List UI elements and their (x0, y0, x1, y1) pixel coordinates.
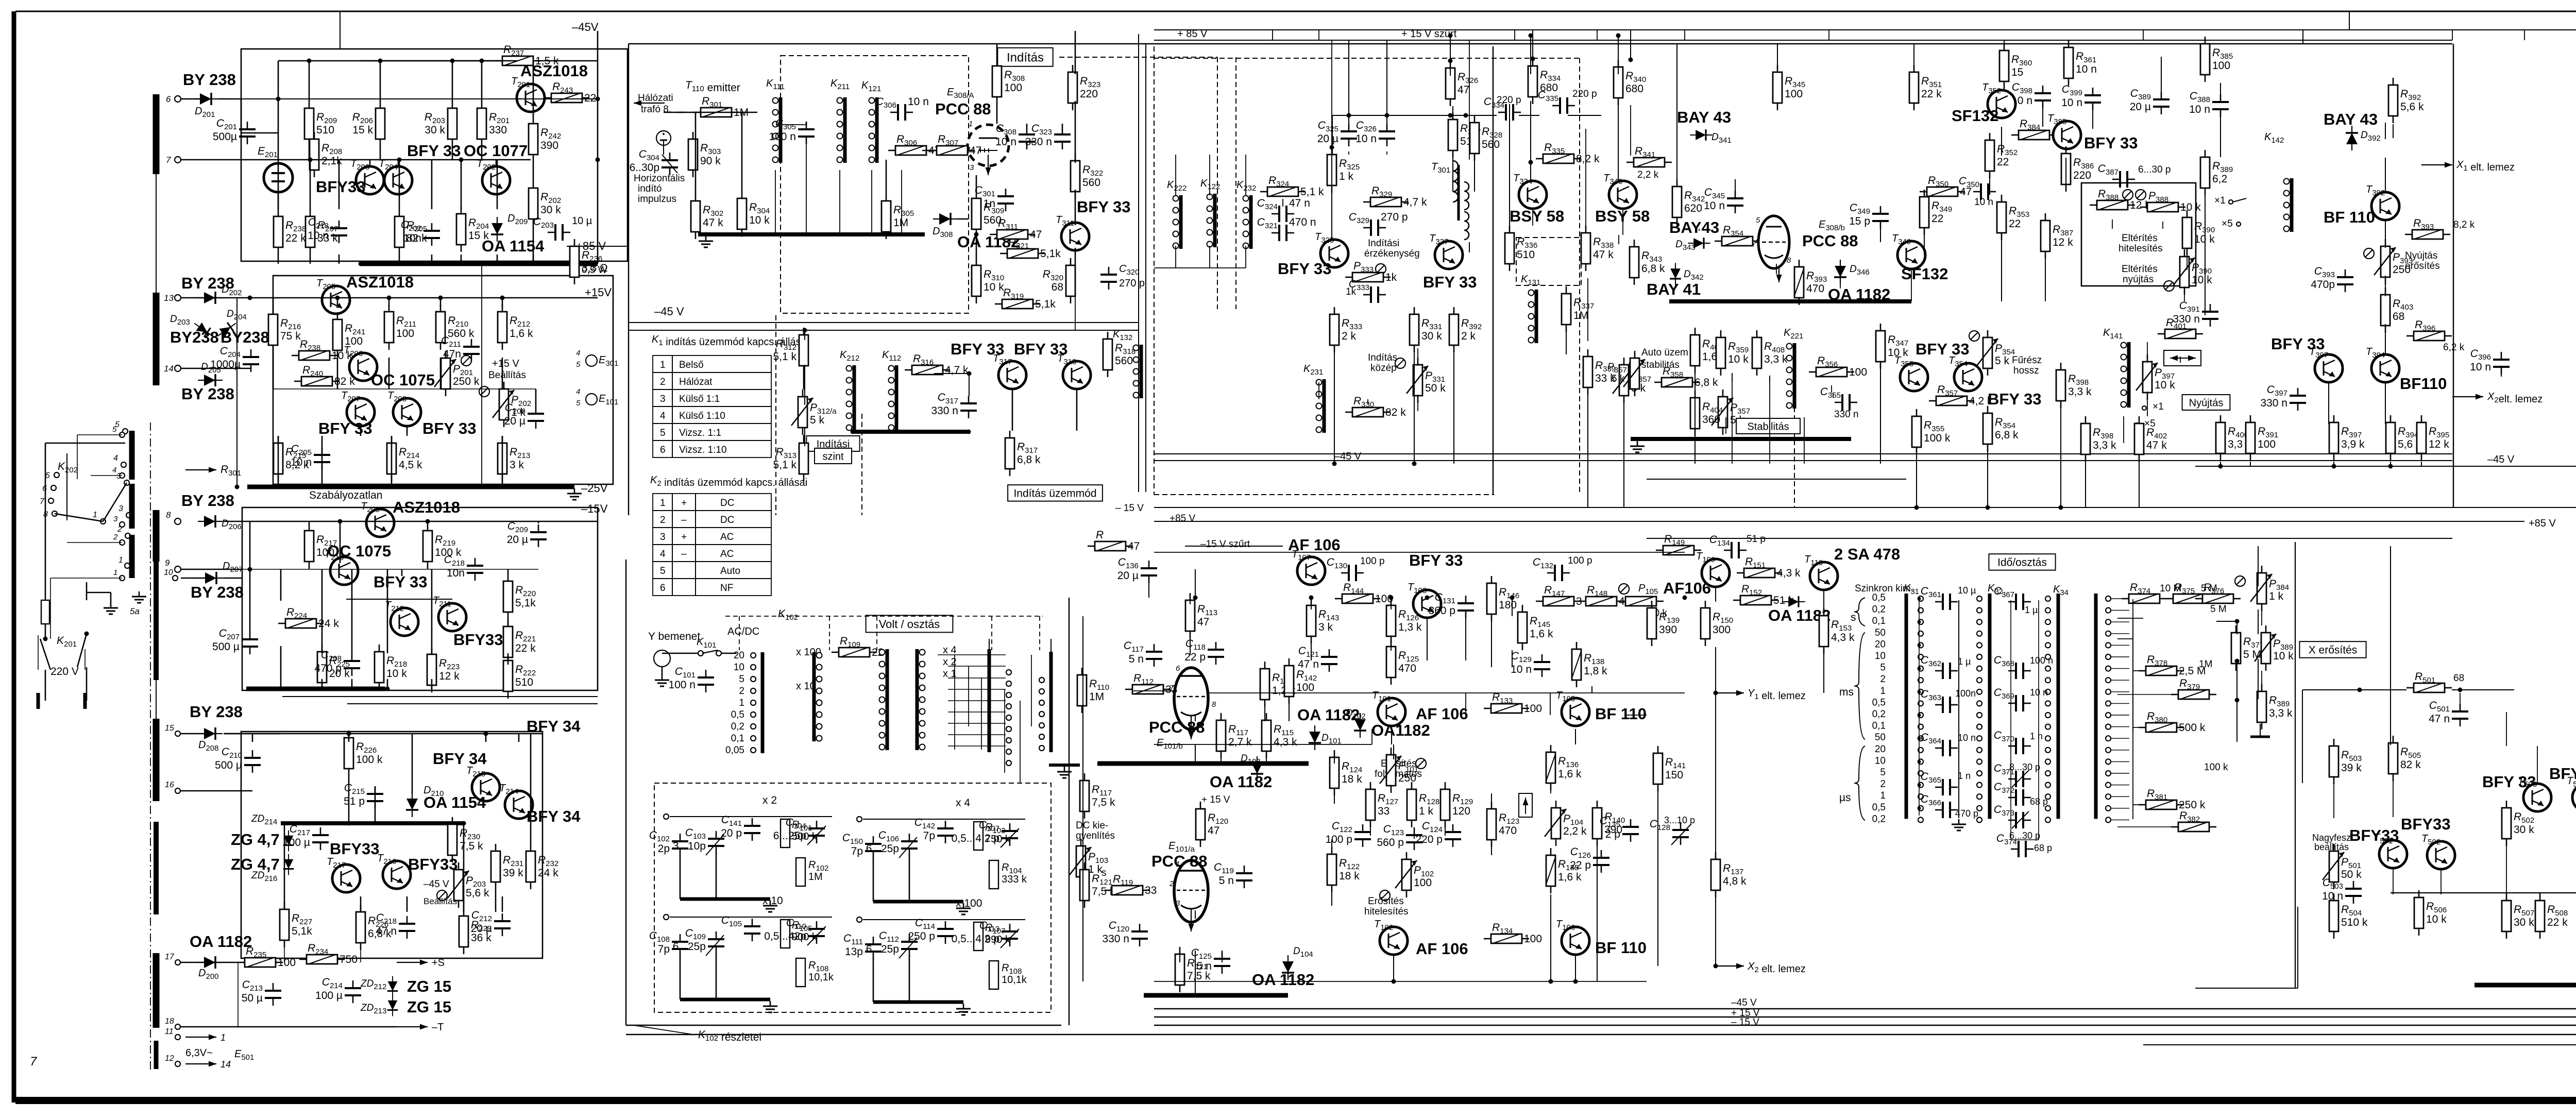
svg-text:47 n: 47 n (1289, 197, 1310, 209)
svg-text:47 k: 47 k (2146, 439, 2167, 451)
svg-text:1: 1 (118, 556, 123, 565)
svg-text:BAY 43: BAY 43 (1677, 108, 1731, 126)
svg-text:x 100: x 100 (956, 897, 982, 909)
svg-text:30 k: 30 k (540, 204, 561, 216)
svg-text:2 SA 478: 2 SA 478 (1834, 545, 1900, 563)
svg-text:BY 238: BY 238 (181, 385, 234, 403)
svg-text:12 k: 12 k (2053, 236, 2073, 248)
svg-text:hitelesítés: hitelesítés (2119, 243, 2163, 254)
svg-text:– 15 V: – 15 V (1115, 503, 1144, 514)
svg-text:22 k: 22 k (515, 642, 536, 654)
svg-text:5,6 k: 5,6 k (466, 887, 489, 899)
svg-text:trafó 8.: trafó 8. (641, 104, 671, 115)
svg-text:1M: 1M (893, 217, 908, 229)
svg-text:µs: µs (1839, 792, 1851, 804)
svg-text:5,1 k: 5,1 k (773, 459, 796, 471)
svg-text:22 p: 22 p (1184, 651, 1206, 663)
svg-text:+15V: +15V (585, 286, 612, 299)
svg-text:10 k: 10 k (984, 281, 1004, 293)
svg-text:47 k: 47 k (1593, 249, 1614, 261)
svg-text:10 n: 10 n (1974, 197, 1993, 208)
svg-text:2 p: 2 p (1605, 828, 1620, 840)
svg-text:10: 10 (1875, 755, 1886, 766)
svg-text:NF: NF (720, 583, 733, 594)
svg-text:közép: közép (1370, 363, 1397, 374)
svg-text:560: 560 (1115, 355, 1133, 367)
svg-text:10 k: 10 k (2180, 201, 2201, 213)
svg-text:Indítás: Indítás (1368, 352, 1397, 363)
svg-text:4,7 k: 4,7 k (1403, 196, 1427, 208)
svg-text:5: 5 (660, 428, 666, 438)
svg-text:15 k: 15 k (352, 124, 373, 136)
svg-text:szint: szint (822, 451, 844, 462)
svg-text:12 k: 12 k (2429, 438, 2449, 450)
svg-text:180: 180 (1499, 599, 1517, 611)
svg-text:220: 220 (2073, 169, 2091, 181)
svg-text:82 k: 82 k (1385, 406, 1406, 418)
svg-text:18 k: 18 k (1342, 773, 1362, 785)
svg-text:Y bemenet: Y bemenet (648, 631, 700, 642)
svg-text:Stabilitás: Stabilitás (1747, 421, 1789, 432)
svg-text:120: 120 (1452, 805, 1470, 817)
svg-text:BFY 33: BFY 33 (2271, 335, 2325, 353)
svg-text:3 k: 3 k (510, 459, 524, 471)
svg-text:47: 47 (1208, 825, 1219, 837)
svg-text:X erősítés: X erősítés (2309, 645, 2358, 656)
svg-text:18: 18 (165, 1017, 174, 1026)
svg-text:4: 4 (576, 349, 580, 358)
svg-text:ASZ1018: ASZ1018 (346, 273, 414, 291)
svg-text:250 k: 250 k (2179, 799, 2206, 811)
svg-text:–45 V: –45 V (1731, 997, 1757, 1008)
svg-text:BF 110: BF 110 (1595, 705, 1647, 723)
svg-text:10 µ: 10 µ (572, 215, 592, 227)
svg-text:5 M: 5 M (2210, 604, 2227, 615)
svg-text:AF 106: AF 106 (1416, 705, 1468, 723)
svg-text:OA 1182: OA 1182 (190, 932, 252, 951)
svg-text:R: R (1096, 529, 1104, 541)
svg-text:+: + (681, 498, 687, 508)
svg-text:–T: –T (432, 1022, 444, 1033)
svg-text:7,5 k: 7,5 k (1092, 796, 1115, 808)
svg-text:100 µ: 100 µ (315, 990, 343, 1002)
svg-text:5,1k: 5,1k (292, 925, 312, 937)
svg-text:5,1k: 5,1k (1040, 248, 1061, 260)
svg-text:100: 100 (396, 328, 414, 340)
svg-text:3 k: 3 k (1318, 621, 1333, 633)
svg-text:BFY 34: BFY 34 (527, 717, 581, 735)
svg-text:1 k: 1 k (2269, 590, 2284, 602)
svg-text:+S: +S (432, 957, 445, 969)
svg-text:3: 3 (660, 394, 666, 404)
svg-text:100: 100 (278, 957, 296, 969)
svg-text:K2 indítás üzemmód kapcs. állá: K2 indítás üzemmód kapcs. állásai (650, 474, 807, 488)
svg-text:20 µ: 20 µ (507, 534, 528, 546)
svg-text:22: 22 (1997, 156, 2009, 168)
svg-text:390: 390 (540, 140, 558, 151)
svg-text:330 n: 330 n (1102, 933, 1129, 945)
svg-text:100: 100 (1296, 682, 1314, 693)
svg-text:2: 2 (1169, 879, 1174, 888)
svg-text:100 p: 100 p (1568, 555, 1592, 566)
svg-text:SF132: SF132 (1952, 107, 1998, 125)
svg-text:OC 1077: OC 1077 (464, 142, 528, 160)
svg-text:330 n: 330 n (931, 405, 958, 417)
svg-text:6...25p: 6...25p (866, 843, 899, 855)
svg-text:10 k: 10 k (2426, 913, 2447, 925)
svg-text:Vizsz. 1:1: Vizsz. 1:1 (679, 428, 721, 438)
svg-text:220 p: 220 p (1572, 89, 1597, 99)
svg-text:47: 47 (1030, 229, 1042, 241)
svg-text:500 k: 500 k (2179, 722, 2206, 734)
svg-text:6...25p: 6...25p (673, 941, 706, 953)
svg-text:22 k: 22 k (285, 232, 306, 244)
svg-text:8: 8 (166, 510, 171, 520)
svg-text:15: 15 (165, 724, 174, 733)
svg-text:4: 4 (576, 387, 580, 396)
svg-text:Vizsz. 1:10: Vizsz. 1:10 (679, 445, 727, 455)
svg-text:érzékenység: érzékenység (1364, 248, 1420, 259)
svg-text:470 n: 470 n (1289, 216, 1316, 228)
svg-text:4: 4 (112, 466, 116, 474)
svg-text:5,1k: 5,1k (515, 597, 536, 609)
svg-text:330 n: 330 n (1834, 409, 1859, 420)
svg-text:10 n: 10 n (2076, 63, 2097, 75)
svg-text:PCC 88: PCC 88 (1802, 232, 1858, 250)
svg-text:impulzus: impulzus (638, 194, 676, 205)
svg-text:470: 470 (1398, 663, 1416, 674)
svg-text:+85 V: +85 V (1170, 513, 1196, 524)
svg-text:1: 1 (969, 120, 973, 128)
svg-text:7: 7 (1752, 240, 1756, 248)
svg-text:22: 22 (2009, 218, 2021, 230)
svg-text:1M: 1M (1573, 310, 1588, 321)
svg-text:1: 1 (739, 698, 744, 708)
svg-text:+ 15 V: + 15 V (1201, 794, 1230, 805)
svg-text:360: 360 (1702, 414, 1720, 426)
svg-text:330 n: 330 n (1025, 136, 1052, 148)
svg-text:Idő/osztás: Idő/osztás (1997, 557, 2047, 569)
svg-text:Nyújtás: Nyújtás (2189, 397, 2224, 409)
svg-text:3: 3 (113, 515, 118, 523)
svg-text:ZG 15: ZG 15 (407, 977, 451, 995)
svg-text:4: 4 (660, 411, 666, 421)
svg-text:Hálózati: Hálózati (638, 93, 673, 104)
svg-text:10: 10 (164, 568, 173, 577)
svg-text:270 p: 270 p (1381, 211, 1408, 223)
svg-text:100 k: 100 k (2204, 762, 2228, 773)
svg-text:x 10: x 10 (762, 895, 783, 907)
svg-text:Belső: Belső (679, 360, 704, 370)
svg-text:47: 47 (1197, 616, 1209, 628)
svg-text:1: 1 (660, 360, 666, 370)
svg-text:8,2 k: 8,2 k (2453, 219, 2475, 230)
svg-text:BFY33: BFY33 (2401, 815, 2450, 833)
svg-text:100: 100 (1785, 88, 1803, 100)
svg-text:14: 14 (164, 364, 174, 374)
svg-text:1,3 k: 1,3 k (1398, 621, 1422, 633)
svg-text:BFY 33: BFY 33 (1409, 551, 1463, 569)
svg-text:510: 510 (515, 676, 533, 688)
svg-text:Volt / osztás: Volt / osztás (879, 618, 940, 631)
svg-text:5: 5 (1880, 663, 1886, 673)
svg-text:10 n: 10 n (1704, 200, 1725, 212)
svg-text:8: 8 (1212, 700, 1216, 709)
svg-text:22: 22 (584, 92, 596, 104)
svg-text:22 k: 22 k (1921, 88, 1942, 100)
svg-text:3,3 k: 3,3 k (2093, 439, 2116, 451)
svg-text:BSY 58: BSY 58 (1510, 207, 1564, 225)
svg-text:hitelesítés: hitelesítés (1364, 906, 1409, 917)
svg-text:Nyújtás: Nyújtás (2405, 250, 2437, 261)
svg-text:250 k: 250 k (453, 376, 480, 387)
svg-text:100 k: 100 k (356, 754, 383, 766)
svg-text:BFY33: BFY33 (453, 631, 503, 649)
svg-text:6: 6 (1176, 664, 1180, 673)
svg-text:BF 110: BF 110 (1595, 939, 1647, 957)
svg-text:10n: 10n (403, 232, 421, 244)
svg-text:0,5 W: 0,5 W (582, 265, 607, 276)
svg-text:4: 4 (660, 549, 666, 559)
svg-text:2: 2 (660, 515, 666, 525)
svg-text:Auto üzem: Auto üzem (1641, 347, 1688, 358)
svg-text:270 p: 270 p (1119, 278, 1145, 289)
svg-text:5a: 5a (130, 606, 140, 616)
svg-text:–45 V: –45 V (2487, 454, 2515, 465)
svg-text:1: 1 (93, 511, 97, 519)
svg-text:510 k: 510 k (2341, 917, 2368, 928)
svg-text:3...10p: 3...10p (673, 840, 706, 852)
svg-text:5: 5 (660, 566, 666, 577)
svg-text:OA 1182: OA 1182 (1210, 773, 1272, 791)
svg-text:10 n: 10 n (2470, 361, 2491, 373)
svg-text:10: 10 (734, 662, 744, 673)
svg-text:4,7 k: 4,7 k (945, 364, 969, 376)
svg-text:750: 750 (340, 954, 358, 965)
svg-text:BFY 33: BFY 33 (1077, 198, 1131, 216)
svg-text:22: 22 (1931, 213, 1943, 225)
svg-text:10 k: 10 k (2155, 379, 2175, 391)
svg-text:20 p: 20 p (721, 827, 742, 839)
svg-text:10 n: 10 n (1958, 733, 1976, 743)
svg-text:20: 20 (1875, 639, 1886, 650)
svg-text:0,2: 0,2 (1872, 604, 1886, 615)
svg-text:6,2: 6,2 (2212, 173, 2227, 185)
svg-text:Szabályozatlan: Szabályozatlan (309, 489, 382, 501)
svg-text:BFY 33: BFY 33 (1278, 260, 1332, 278)
svg-text:10 k: 10 k (749, 214, 770, 226)
svg-text:Fűrész: Fűrész (2012, 355, 2042, 366)
svg-text:–25V: –25V (581, 482, 608, 495)
svg-text:BFY 33: BFY 33 (318, 419, 372, 437)
svg-text:5,1 k: 5,1 k (773, 351, 796, 363)
svg-text:BY 238: BY 238 (191, 583, 244, 601)
svg-text:100 n: 100 n (2030, 655, 2053, 666)
svg-text:100: 100 (2258, 438, 2276, 450)
svg-text:6...25p: 6...25p (866, 943, 899, 955)
svg-text:Indítás: Indítás (1007, 51, 1044, 65)
svg-text:5,6 k: 5,6 k (2400, 101, 2424, 113)
svg-text:13: 13 (164, 293, 174, 303)
svg-text:s: s (1851, 612, 1856, 623)
svg-text:BFY 34: BFY 34 (433, 750, 487, 768)
svg-text:47: 47 (970, 145, 981, 157)
svg-text:5 n: 5 n (1219, 875, 1234, 887)
svg-text:Indítás üzemmód: Indítás üzemmód (1013, 488, 1096, 500)
svg-text:20 µ: 20 µ (2130, 101, 2151, 113)
svg-text:Eltérítés: Eltérítés (2122, 264, 2158, 275)
svg-text:BFY 33: BFY 33 (1916, 340, 1970, 358)
svg-text:10 n: 10 n (995, 136, 1016, 148)
svg-text:0,5...4,2 p: 0,5...4,2 p (952, 833, 999, 844)
svg-text:22 p: 22 p (1570, 859, 1591, 871)
svg-text:×1: ×1 (2153, 401, 2164, 412)
svg-text:50: 50 (1875, 628, 1886, 638)
svg-text:nyújtás: nyújtás (2123, 274, 2154, 285)
svg-text:Auto: Auto (720, 566, 740, 577)
svg-text:15 p: 15 p (1849, 215, 1870, 227)
svg-text:4,3 k: 4,3 k (1777, 567, 1801, 579)
svg-text:10 k: 10 k (2192, 274, 2212, 286)
svg-text:0,1: 0,1 (1872, 721, 1886, 732)
svg-text:13p: 13p (845, 946, 863, 958)
svg-text:510: 510 (316, 124, 334, 136)
svg-text:BY238: BY238 (170, 328, 219, 346)
svg-text:33: 33 (1145, 885, 1157, 896)
svg-text:+15 V: +15 V (492, 358, 519, 369)
svg-text:DC: DC (720, 515, 734, 525)
svg-text:2 k: 2 k (1342, 330, 1357, 342)
svg-text:47 n: 47 n (376, 925, 397, 937)
svg-text:4,5 k: 4,5 k (399, 459, 422, 471)
svg-text:BFY 33: BFY 33 (422, 419, 477, 437)
svg-text:1: 1 (221, 1032, 226, 1043)
svg-text:x 2: x 2 (762, 794, 777, 806)
svg-text:510: 510 (1517, 249, 1535, 261)
svg-text:50 k: 50 k (1425, 382, 1446, 394)
svg-text:10 k: 10 k (2273, 650, 2294, 662)
svg-text:14: 14 (221, 1059, 231, 1070)
svg-text:12: 12 (165, 1054, 174, 1063)
svg-text:2p: 2p (658, 843, 670, 855)
svg-text:BFY 33: BFY 33 (1423, 273, 1477, 291)
svg-text:+: + (681, 532, 687, 542)
svg-text:9: 9 (165, 558, 170, 568)
svg-text:5,1k: 5,1k (1035, 298, 1056, 310)
svg-text:100: 100 (1524, 703, 1542, 715)
svg-text:100 n: 100 n (668, 679, 696, 691)
svg-text:4: 4 (113, 454, 118, 463)
svg-text:BF110: BF110 (2400, 375, 2447, 393)
svg-text:0,5: 0,5 (731, 709, 744, 720)
svg-text:30 k: 30 k (425, 124, 445, 136)
svg-text:–: – (681, 515, 687, 525)
svg-text:Külső 1:10: Külső 1:10 (679, 411, 725, 421)
svg-text:4,8 k: 4,8 k (1723, 875, 1747, 887)
svg-text:Erősítés: Erősítés (1368, 896, 1404, 907)
svg-text:6,8 k: 6,8 k (1641, 263, 1665, 275)
svg-text:–45V: –45V (572, 21, 599, 33)
svg-text:Külső 1:1: Külső 1:1 (679, 394, 720, 404)
svg-text:10 n: 10 n (2189, 104, 2210, 115)
svg-text:6...25p: 6...25p (773, 830, 806, 842)
svg-text:3: 3 (1176, 899, 1180, 908)
svg-text:5: 5 (576, 360, 581, 369)
svg-text:0,2: 0,2 (1872, 709, 1886, 720)
svg-text:5 k: 5 k (810, 414, 825, 426)
svg-text:3,3 k: 3,3 k (1764, 353, 1788, 365)
svg-text:50 k: 50 k (2341, 869, 2362, 880)
svg-text:470: 470 (1499, 825, 1517, 837)
svg-text:560 p: 560 p (1377, 837, 1404, 849)
svg-text:6..30p: 6..30p (630, 162, 659, 174)
svg-text:BFY33: BFY33 (408, 855, 457, 873)
svg-text:BAY 43: BAY 43 (2324, 110, 2378, 128)
svg-text:1,6 k: 1,6 k (510, 328, 533, 340)
svg-text:50: 50 (1875, 732, 1886, 743)
svg-text:BY 238: BY 238 (183, 71, 236, 89)
svg-text:560 k: 560 k (448, 328, 474, 340)
svg-text:5: 5 (1880, 767, 1886, 778)
svg-text:8: 8 (1787, 256, 1791, 265)
svg-text:470 p: 470 p (314, 663, 342, 674)
svg-text:OC 1075: OC 1075 (371, 371, 435, 389)
svg-text:100 µ: 100 µ (283, 837, 310, 849)
svg-text:11: 11 (165, 1027, 174, 1036)
svg-text:470p: 470p (2311, 279, 2335, 291)
svg-text:6,8 k: 6,8 k (1995, 429, 2019, 441)
svg-text:0,5: 0,5 (1872, 592, 1886, 603)
svg-text:6: 6 (660, 445, 666, 455)
svg-text:12 k: 12 k (439, 670, 460, 682)
svg-text:DC kie-: DC kie- (1076, 820, 1108, 831)
svg-text:BFY33: BFY33 (330, 840, 379, 858)
svg-text:1k: 1k (1385, 272, 1397, 283)
svg-text:1 k: 1 k (1419, 805, 1434, 817)
svg-text:PCC 88: PCC 88 (1149, 718, 1205, 736)
svg-text:10: 10 (1875, 651, 1886, 662)
svg-text:0,05: 0,05 (725, 745, 744, 756)
svg-text:39 k: 39 k (503, 867, 523, 879)
svg-text:×1: ×1 (2214, 195, 2226, 206)
svg-text:stabilitás: stabilitás (1641, 360, 1680, 370)
svg-text:47 n: 47 n (2429, 713, 2450, 725)
svg-text:333 k: 333 k (1002, 874, 1027, 885)
svg-text:20 µ: 20 µ (471, 923, 492, 935)
svg-text:10 k: 10 k (1728, 353, 1749, 365)
svg-text:1,6 k: 1,6 k (1530, 628, 1553, 640)
svg-text:90 k: 90 k (700, 155, 721, 167)
svg-text:1M: 1M (1089, 691, 1104, 703)
svg-text:indító: indító (638, 183, 662, 194)
svg-text:3,3 k: 3,3 k (2068, 386, 2092, 398)
svg-text:x 10: x 10 (796, 681, 816, 692)
svg-text:51 p: 51 p (344, 795, 365, 807)
svg-text:4,3 k: 4,3 k (1831, 632, 1855, 643)
svg-text:0,5...42p: 0,5...42p (764, 930, 806, 942)
svg-text:30 k: 30 k (1421, 330, 1442, 342)
svg-text:33: 33 (1378, 805, 1389, 817)
svg-text:Eltérítés: Eltérítés (2122, 233, 2158, 244)
svg-text:6,8 k: 6,8 k (1694, 377, 1718, 388)
svg-text:BFY 33: BFY 33 (1988, 390, 2042, 408)
svg-text:–45 V: –45 V (654, 305, 684, 318)
svg-text:Horizontális: Horizontális (634, 173, 685, 184)
svg-text:2,2 k: 2,2 k (1563, 825, 1587, 837)
svg-text:100: 100 (1524, 933, 1542, 945)
svg-text:560: 560 (1082, 177, 1100, 189)
svg-text:ms: ms (1839, 686, 1854, 698)
